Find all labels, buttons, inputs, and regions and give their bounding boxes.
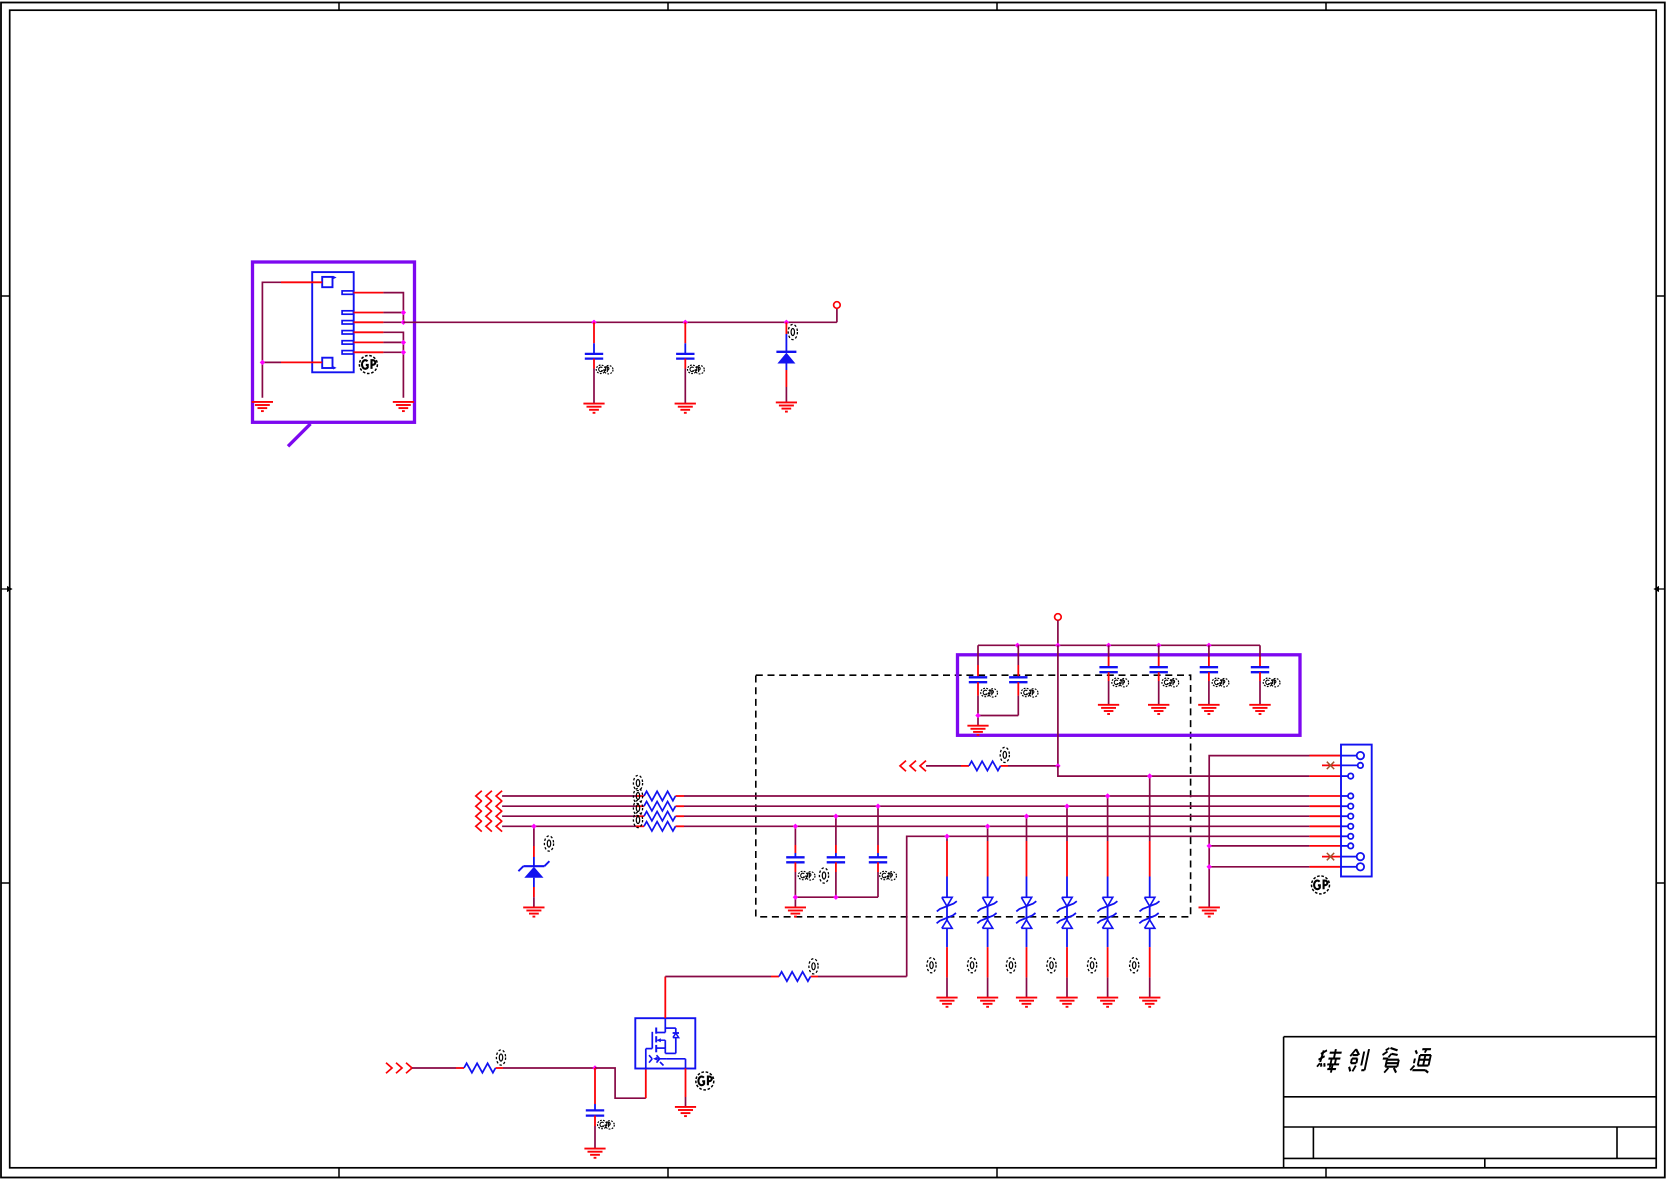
capacitor (bank) [1208, 645, 1210, 667]
wire: pin3 stub [383, 321, 403, 323]
wire: signal line 5 [907, 836, 1310, 976]
junction [833, 814, 838, 819]
wire to resistor R6 [412, 1067, 456, 1069]
capacitor CA lower lead [977, 682, 979, 715]
ground [1098, 705, 1119, 714]
ref label [633, 800, 642, 815]
company name text [1316, 1048, 1433, 1073]
capacitor C1 lower lead [593, 359, 595, 404]
TVS diode [1097, 796, 1117, 998]
terminal (open pin) [834, 302, 841, 309]
GP label J1 [359, 356, 377, 374]
junction [1024, 814, 1029, 819]
G/P label [880, 871, 897, 880]
wire: signal line 3 left [502, 815, 636, 817]
wire: shield pin mid [1209, 845, 1309, 847]
GP label Q1 [696, 1072, 714, 1090]
TVS diode [1139, 776, 1159, 997]
wire: signal line 2 left [502, 805, 636, 807]
capacitor CB lower lead [1017, 682, 1019, 715]
ground [1097, 998, 1118, 1007]
G/P label [598, 1120, 615, 1129]
ground [1139, 998, 1160, 1007]
junction [401, 310, 406, 315]
junction [1015, 643, 1020, 648]
wire: signal line 4 left [502, 825, 636, 827]
filter capacitor [835, 816, 837, 857]
wire: left shield down [262, 282, 281, 398]
R5 ref label [1000, 747, 1009, 762]
junction [260, 360, 265, 365]
TVS ref label [1006, 958, 1015, 973]
ground [1016, 998, 1037, 1007]
junction [1207, 864, 1212, 869]
no-connect X [1327, 853, 1334, 860]
G/P label [1263, 678, 1280, 687]
purple callout diagonal [288, 424, 311, 447]
filter capacitor lower lead [794, 862, 796, 897]
junction [1064, 804, 1069, 809]
connector J1 body [312, 272, 354, 372]
wire: signal line 2 right [684, 805, 1309, 807]
wire: pin4 to ground vertical [383, 332, 403, 398]
capacitor (bank) [1158, 645, 1160, 667]
wire: common ground stem [977, 716, 979, 726]
filter capacitor [794, 826, 796, 857]
TVS ref label [927, 958, 936, 973]
ground [1148, 705, 1169, 714]
wire: pin6 stub [383, 351, 403, 353]
ref label [633, 775, 642, 790]
connector J1 mounting pin bottom [322, 358, 332, 368]
resistor series line 1 [636, 795, 684, 797]
G/P label [1112, 678, 1129, 687]
ground [977, 998, 998, 1007]
junction [833, 895, 838, 900]
wire: pin1 to pin2 node [383, 293, 403, 313]
junction [1106, 643, 1111, 648]
offpage chevrons [476, 821, 502, 832]
junction [1105, 793, 1110, 798]
wire: signal line 4 right [684, 825, 1309, 827]
wire: capacitor bank bus [978, 644, 1260, 646]
transistor Q1 (MOSFET) box [635, 1018, 695, 1068]
wire: filter cap common [795, 896, 878, 898]
junction [1055, 763, 1060, 768]
wire: power rail drop to resistor node [1057, 645, 1059, 766]
connector J1 mounting pin top [322, 277, 332, 287]
capacitor (bank) [1108, 645, 1110, 667]
capacitor C1 [593, 322, 595, 354]
terminal (open pin) power [1055, 614, 1062, 621]
D1 ref label [788, 324, 797, 339]
capacitor C3 (gate) [594, 1068, 596, 1110]
Z1 ref label [544, 836, 553, 851]
wire: connector shield rail [1209, 756, 1341, 908]
junction [1206, 643, 1211, 648]
resistor R6 leads [456, 1067, 503, 1069]
title block [1284, 1037, 1657, 1168]
TVS ref label [1088, 958, 1097, 973]
junction [875, 804, 880, 809]
connector J1 square pin arrow marks [333, 276, 336, 370]
ground [1249, 705, 1270, 714]
connector J2 pins [1341, 752, 1364, 871]
junction [985, 824, 990, 829]
filter capacitor lower lead [835, 862, 837, 897]
ground [776, 402, 797, 411]
resistor R5 leads [961, 765, 1008, 767]
ground [675, 404, 696, 413]
ground [936, 998, 957, 1007]
G/P label [596, 365, 613, 374]
filter capacitor lower lead [877, 862, 879, 897]
resistor series line 4 [636, 825, 684, 827]
capacitor lower lead [1208, 672, 1210, 704]
junction [944, 834, 949, 839]
connector J2 body [1341, 745, 1372, 877]
resistor R7 leads [771, 976, 818, 978]
TVS ref label [968, 958, 977, 973]
wire: filter ground stem [794, 897, 796, 907]
G/P label [1162, 678, 1179, 687]
wire: power terminal drop [1057, 620, 1059, 645]
ground [967, 726, 988, 735]
wire: Q1 drain riser [664, 977, 666, 1019]
junction [401, 320, 406, 325]
red leads connector right [1309, 756, 1341, 867]
TVS diode [1057, 806, 1077, 997]
resistor zigzag [464, 1063, 496, 1072]
offpage chevrons [476, 801, 502, 812]
transistor Q1 internals [646, 1018, 686, 1068]
resistor zigzag [644, 802, 676, 811]
wire: main net J1 pin3 to terminal [403, 321, 837, 323]
TVS ref label [1047, 958, 1056, 973]
purple group box 1 (connector area) [253, 262, 415, 422]
wire: signal line 3 right [684, 815, 1309, 817]
offpage chevrons [900, 761, 926, 772]
wire: Q1 source to ground [685, 1068, 687, 1106]
capacitor C3 lower lead [594, 1116, 596, 1149]
offpage chevrons [386, 1063, 412, 1074]
resistor series line 2 [636, 805, 684, 807]
ground (shield) [252, 402, 273, 411]
junction [1147, 773, 1152, 778]
junction [683, 320, 688, 325]
wire: pin2 stub [383, 312, 403, 314]
R6 ref label [496, 1050, 505, 1065]
junction [793, 824, 798, 829]
ground [583, 404, 604, 413]
ground [1056, 998, 1077, 1007]
wire: CA-CB common [978, 715, 1018, 717]
capacitor lower lead [1158, 672, 1160, 704]
wire: gate node jog to Q1 gate [595, 1068, 646, 1098]
resistor zigzag [779, 972, 811, 981]
GP label J2 [1312, 876, 1330, 894]
capacitor CA [977, 645, 979, 677]
junction [1156, 643, 1161, 648]
resistor zigzag [644, 812, 676, 821]
diode D1 [776, 322, 796, 402]
offpage chevrons [476, 791, 502, 802]
TVS diode [937, 836, 957, 997]
G/P label [1021, 688, 1038, 697]
zener diode Z1 [518, 826, 549, 907]
connector J1 signal pins [342, 291, 353, 354]
capacitor C2 [684, 322, 686, 354]
ground [1198, 705, 1219, 714]
G/P label [688, 365, 705, 374]
ground [785, 907, 806, 916]
ground [1199, 907, 1220, 916]
junction [592, 1065, 597, 1070]
wire: shield pin bottom [1209, 866, 1309, 868]
junction [401, 340, 406, 345]
capacitor CB [1017, 645, 1019, 677]
border centering arrows [2, 586, 1665, 592]
resistor series line 3 [636, 815, 684, 817]
junction [1055, 643, 1060, 648]
ground [675, 1107, 696, 1116]
cap ref label [819, 868, 828, 883]
ref label [633, 788, 642, 803]
junction [784, 320, 789, 325]
junction [975, 713, 980, 718]
ground [584, 1149, 605, 1158]
junction [1147, 773, 1152, 778]
junction [793, 895, 798, 900]
wire: signal line 1 left [502, 795, 636, 797]
ground [523, 907, 544, 916]
wire: terminal riser [836, 308, 838, 322]
wire: R5 to power node [1008, 765, 1058, 767]
G/P label [1212, 678, 1229, 687]
ground (pins) [393, 402, 414, 411]
wire: pin5 stub [383, 341, 403, 343]
wire: power node to connector pin3 [1058, 766, 1310, 776]
G/P label [798, 871, 815, 880]
offpage chevrons [476, 811, 502, 822]
TVS diode [1016, 816, 1036, 997]
resistor zigzag [644, 822, 676, 831]
filter capacitor [877, 806, 879, 857]
TVS diode [977, 826, 997, 997]
TVS ref label [1130, 958, 1139, 973]
junction [401, 350, 406, 355]
R7 ref label [809, 959, 818, 974]
wire: R6 to gate node [503, 1067, 595, 1069]
junction [591, 320, 596, 325]
wire: bottom shield stub [262, 361, 281, 363]
purple group box 2 (capacitor bank) [958, 655, 1301, 736]
ref label [633, 812, 642, 827]
wire: signal line 1 right [684, 795, 1309, 797]
junction [1207, 843, 1212, 848]
G/P label [981, 688, 998, 697]
connector J1 pin leads [281, 282, 383, 362]
wire: drain to resistor R7 [665, 976, 771, 978]
capacitor (bank) [1259, 645, 1261, 667]
wire: pin3 vertical tie [402, 313, 404, 323]
resistor zigzag [644, 791, 676, 800]
junction [531, 824, 536, 829]
wire: R7 to line 5 [818, 976, 907, 978]
wire to resistor R5 [926, 765, 961, 767]
capacitor lower lead [1108, 672, 1110, 704]
capacitor C2 lower lead [684, 359, 686, 404]
capacitor lower lead [1259, 672, 1261, 704]
dashed highlight rectangle [756, 675, 1191, 917]
resistor zigzag [969, 761, 1001, 770]
no-connect X [1327, 762, 1334, 769]
